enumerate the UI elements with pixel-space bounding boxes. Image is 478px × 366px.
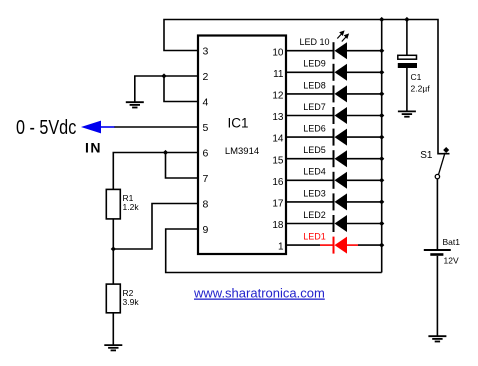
junction node LED4 anode on bus <box>379 178 384 183</box>
wire C1 to ground <box>406 68 408 111</box>
ground (below C1) <box>398 111 416 116</box>
ground (pins 2 and 4) <box>126 102 144 107</box>
LED diode LED9 (cathode bar + triangle) <box>286 64 382 81</box>
svg-text:0 - 5Vdc: 0 - 5Vdc <box>16 115 76 138</box>
pin number 13 <box>272 112 284 123</box>
input range label 0 - 5Vdc <box>16 115 76 138</box>
LED diode LED5 (cathode bar + triangle) <box>286 150 382 167</box>
wire pin9 to V+ bus bottom (mode select) <box>166 229 382 273</box>
wire R1 bottom to junction <box>112 219 114 249</box>
svg-text:2: 2 <box>203 71 209 83</box>
pin number 5 <box>203 122 209 134</box>
LED4 label <box>303 167 326 177</box>
svg-text:4: 4 <box>203 96 209 108</box>
junction node pin2/pin4 <box>161 73 166 78</box>
battery Bat1 positive plate (long) <box>424 249 451 251</box>
junction node pin6/pin7 <box>163 150 168 155</box>
pin number 10 <box>272 47 284 58</box>
switch S1 top contact node <box>443 147 449 153</box>
op-amp-style IC body U/IC1 LM3914 outline <box>198 36 286 255</box>
junction node LED6 anode on bus <box>379 135 384 140</box>
svg-text:9: 9 <box>203 224 209 236</box>
LED diode LED8 (cathode bar + triangle) <box>286 85 382 102</box>
svg-text:2.2µf: 2.2µf <box>411 84 431 94</box>
IC1 reference label <box>227 115 248 130</box>
junction node: C1 meets top rail <box>404 17 409 22</box>
switch S1 lever <box>439 153 445 175</box>
svg-text:17: 17 <box>272 199 284 210</box>
svg-text:LED8: LED8 <box>303 80 326 90</box>
LED diode LED1 (cathode bar + triangle) <box>286 237 382 254</box>
wire pin3 to V+ top rail to S1 top contact <box>164 20 450 154</box>
svg-text:www.sharatronica.com: www.sharatronica.com <box>193 286 325 301</box>
wire top rail to C1 <box>406 20 408 56</box>
pin number 11 <box>273 69 284 80</box>
LED5 label <box>303 145 326 155</box>
LED3 label <box>303 188 326 198</box>
R1 label <box>123 193 134 203</box>
wire S1 to battery + <box>436 179 438 249</box>
input arrow (blue, points left) <box>81 121 101 134</box>
svg-text:7: 7 <box>203 173 209 185</box>
wire pin2 to ground <box>135 76 198 102</box>
svg-text:12V: 12V <box>444 256 459 266</box>
junction node LED2 anode on bus <box>379 221 384 226</box>
svg-text:LED9: LED9 <box>303 59 326 69</box>
pin number 6 <box>203 147 209 159</box>
svg-text:LED4: LED4 <box>303 167 326 177</box>
svg-text:S1: S1 <box>420 150 433 161</box>
svg-text:Bat1: Bat1 <box>443 237 461 247</box>
LED8 label <box>303 80 326 90</box>
wire pin5 signal input (black part) <box>114 126 198 128</box>
R1 value 1.2k <box>123 202 140 212</box>
LED diode LED7 (cathode bar + triangle) <box>286 107 382 124</box>
svg-text:LED1: LED1 <box>303 232 326 242</box>
svg-text:LED6: LED6 <box>303 124 326 134</box>
R2 value 3.9k <box>123 297 140 307</box>
svg-text:IN: IN <box>85 140 102 156</box>
svg-text:1: 1 <box>278 242 284 253</box>
LED9 label <box>303 59 326 69</box>
pin number 1 <box>278 242 284 253</box>
LED diode LED4 (cathode bar + triangle) <box>286 172 382 189</box>
Bat1 value 12V <box>444 256 459 266</box>
switch S1 bottom contact (open circle) <box>435 174 439 178</box>
LED diode LED2 (cathode bar + triangle) <box>286 215 382 232</box>
svg-text:11: 11 <box>273 69 284 80</box>
svg-text:15: 15 <box>272 155 284 166</box>
svg-text:C1: C1 <box>411 72 422 82</box>
C1 value 2.2µf <box>411 84 431 94</box>
pin number 4 <box>203 96 209 108</box>
resistor R2 body <box>106 284 120 313</box>
svg-text:LM3914: LM3914 <box>225 146 259 157</box>
svg-text:LED2: LED2 <box>303 210 326 220</box>
svg-text:3: 3 <box>203 45 209 57</box>
junction node LED3 anode on bus <box>379 199 384 204</box>
LED6 label <box>303 124 326 134</box>
svg-text:14: 14 <box>272 134 284 145</box>
LED10 light emission arrows <box>337 30 349 41</box>
junction node: V+ bus meets top rail <box>379 17 384 22</box>
website caption www.sharatronica.com <box>193 286 325 301</box>
S1 label <box>420 150 433 161</box>
pin number 18 <box>272 220 284 231</box>
pin number 15 <box>272 155 284 166</box>
wire pin8 to R1-R2 junction <box>113 204 198 250</box>
svg-text:8: 8 <box>203 198 209 210</box>
IC1 value label LM3914 <box>225 146 259 157</box>
wire pin6 to R1 top <box>113 153 198 190</box>
wire pin4 up to pin2 net <box>164 76 198 102</box>
wire junction to R2 top <box>112 249 114 284</box>
svg-text:LED 10: LED 10 <box>299 37 329 47</box>
capacitor C1 bottom plate <box>398 63 417 68</box>
pin number 16 <box>272 177 284 188</box>
pin number 2 <box>203 71 209 83</box>
svg-text:18: 18 <box>272 220 284 231</box>
C1 label <box>411 72 422 82</box>
LED 10 label <box>299 37 329 47</box>
svg-text:3.9k: 3.9k <box>123 297 140 307</box>
LED1 label <box>303 232 326 242</box>
svg-text:LED7: LED7 <box>303 102 326 112</box>
svg-text:1.2k: 1.2k <box>123 202 140 212</box>
junction node LED10 anode on bus <box>379 48 384 53</box>
pin number 17 <box>272 199 284 210</box>
wire pin7 up to pin6 net <box>166 153 199 179</box>
V+ LED anode bus (vertical) <box>381 20 383 273</box>
svg-text:5: 5 <box>203 122 209 134</box>
wire R2 bottom to ground <box>112 313 114 345</box>
junction node LED5 anode on bus <box>379 156 384 161</box>
pin number 3 <box>203 45 209 57</box>
svg-text:LED5: LED5 <box>303 145 326 155</box>
junction node LED7 anode on bus <box>379 113 384 118</box>
LED diode LED6 (cathode bar + triangle) <box>286 129 382 146</box>
pin number 7 <box>203 173 209 185</box>
LED2 label <box>303 210 326 220</box>
junction node R1/R2/pin8 <box>111 246 116 251</box>
junction node LED1 anode on bus <box>379 243 384 248</box>
LED7 label <box>303 102 326 112</box>
LED diode LED10 (cathode bar + triangle) <box>286 42 382 59</box>
ground (below battery) <box>428 336 446 341</box>
svg-text:13: 13 <box>272 112 284 123</box>
pin number 14 <box>272 134 284 145</box>
svg-text:10: 10 <box>272 47 284 58</box>
LED diode LED3 (cathode bar + triangle) <box>286 193 382 210</box>
pin number 12 <box>272 91 284 102</box>
resistor R1 body <box>106 189 120 219</box>
svg-text:IC1: IC1 <box>227 115 248 130</box>
IN label <box>85 140 102 156</box>
ground (below R2) <box>104 345 122 350</box>
svg-text:LED3: LED3 <box>303 188 326 198</box>
junction node LED8 anode on bus <box>379 91 384 96</box>
pin number 9 <box>203 224 209 236</box>
svg-text:16: 16 <box>272 177 284 188</box>
junction node LED9 anode on bus <box>379 70 384 75</box>
wire battery - to ground <box>436 256 438 336</box>
battery Bat1 negative plate (short) <box>430 253 443 256</box>
Bat1 label <box>443 237 461 247</box>
capacitor C1 top plate <box>398 55 417 59</box>
pin number 8 <box>203 198 209 210</box>
R2 label <box>123 288 134 298</box>
svg-text:12: 12 <box>272 91 284 102</box>
svg-text:6: 6 <box>203 147 209 159</box>
wire input (blue part) <box>101 126 115 128</box>
